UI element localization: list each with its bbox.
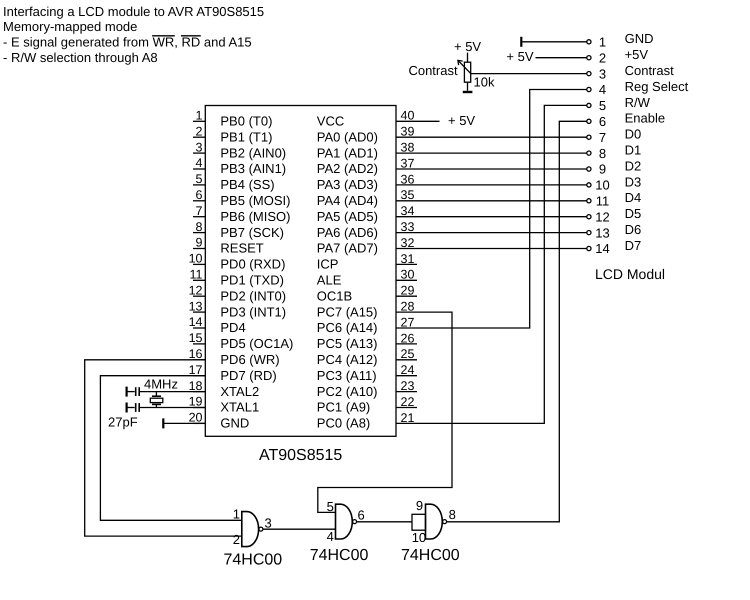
svg-text:74HC00: 74HC00 — [310, 547, 369, 564]
svg-text:PC2 (A10): PC2 (A10) — [317, 384, 378, 399]
U2A pin number 1 — [233, 507, 240, 522]
wire Enable net: NAND U2C output pin 8 up to LCD Enable — [446, 121, 587, 522]
U2A pin number 2 — [233, 532, 240, 547]
svg-text:6: 6 — [358, 508, 365, 523]
svg-text:11: 11 — [596, 194, 610, 209]
svg-text:R/W: R/W — [625, 95, 651, 110]
svg-text:6: 6 — [196, 188, 203, 202]
ground bar at potentiometer — [463, 91, 473, 93]
svg-text:PD6 (WR): PD6 (WR) — [220, 352, 279, 367]
svg-text:27: 27 — [401, 315, 415, 329]
U1 pin 37 (PA2 (AD2)) stub + number + label — [317, 156, 417, 176]
U1 pin 26 (PC5 (A13)) stub + number + label — [317, 331, 417, 351]
svg-text:12: 12 — [595, 209, 609, 224]
svg-text:17: 17 — [189, 363, 203, 377]
svg-text:9: 9 — [196, 236, 203, 250]
svg-text:D1: D1 — [625, 143, 642, 158]
svg-text:PA5 (AD5): PA5 (AD5) — [317, 209, 378, 224]
svg-text:PB2 (AIN0): PB2 (AIN0) — [220, 145, 286, 160]
svg-text:74HC00: 74HC00 — [224, 552, 283, 569]
svg-text:2: 2 — [196, 124, 203, 138]
svg-text:PA1 (AD1): PA1 (AD1) — [317, 145, 378, 160]
svg-text:10: 10 — [595, 178, 609, 193]
svg-text:- E signal generated from WR,: - E signal generated from WR, RD and A15 — [3, 35, 252, 50]
svg-text:8: 8 — [449, 507, 456, 522]
svg-text:13: 13 — [189, 299, 203, 313]
U2B pin number 5 — [327, 499, 334, 514]
svg-text:Reg Select: Reg Select — [625, 79, 689, 94]
wire RD net: pin 17 PD7 down to NAND U2A input pin 1 — [100, 376, 241, 521]
U1 pin 19 (XTAL1) stub + number + label — [189, 395, 260, 415]
svg-text:10: 10 — [189, 252, 203, 266]
svg-text:Interfacing a LCD module to AV: Interfacing a LCD module to AVR AT90S851… — [3, 4, 264, 19]
svg-text:PD4: PD4 — [220, 320, 245, 335]
wire U2B output pin 6 to U2C tied inputs — [357, 521, 412, 523]
LCD connector pin 8 (D1) circle + number + label — [587, 143, 641, 161]
svg-text:PD2 (INT0): PD2 (INT0) — [220, 288, 286, 303]
wire +5V to potentiometer R1 — [467, 53, 469, 63]
svg-text:4MHz: 4MHz — [144, 377, 178, 392]
U2B part label 74HC00 — [310, 547, 369, 564]
svg-text:D3: D3 — [625, 174, 642, 189]
svg-text:25: 25 — [401, 347, 415, 361]
U1 pin 27 (PC6 (A14)) stub + number + label — [317, 315, 417, 335]
capacitor C1 27pF — [127, 387, 140, 396]
svg-text:3: 3 — [265, 515, 272, 530]
svg-text:PB4 (SS): PB4 (SS) — [220, 177, 274, 192]
title text block — [3, 4, 264, 65]
svg-text:36: 36 — [401, 172, 415, 186]
svg-text:PC4 (A12): PC4 (A12) — [317, 352, 378, 367]
wire PA4/AD4 pin 35 to LCD D4 — [417, 200, 587, 202]
svg-text:38: 38 — [401, 141, 415, 155]
U1 pin 6 (PB5 (MOSI)) stub + number + label — [193, 188, 290, 208]
svg-text:13: 13 — [595, 225, 609, 240]
svg-text:9: 9 — [599, 162, 606, 177]
LCD connector pin 7 (D0) circle + number + label — [587, 127, 641, 145]
svg-text:AT90S8515: AT90S8515 — [259, 447, 342, 464]
svg-text:74HC00: 74HC00 — [401, 547, 460, 564]
svg-text:26: 26 — [401, 331, 415, 345]
ground bar at C1 — [125, 387, 127, 397]
svg-text:+ 5V: + 5V — [454, 39, 481, 54]
value label 27pF — [108, 415, 138, 430]
U1 pin 35 (PA4 (AD4)) stub + number + label — [317, 188, 417, 208]
ground bar at C2 — [125, 403, 127, 413]
U1 pin 39 (PA0 (AD0)) stub + number + label — [317, 125, 417, 145]
label LCD Modul — [595, 266, 665, 282]
svg-text:1: 1 — [196, 109, 203, 123]
svg-text:21: 21 — [401, 411, 415, 425]
U2C pin number 9 — [416, 498, 423, 513]
LCD connector pin 5 (R/W) circle + number + label — [587, 95, 651, 113]
svg-text:PD1 (TXD): PD1 (TXD) — [220, 273, 284, 288]
svg-text:RESET: RESET — [220, 241, 263, 256]
svg-text:D7: D7 — [625, 238, 642, 253]
svg-text:PC1 (A9): PC1 (A9) — [317, 400, 370, 415]
svg-text:Enable: Enable — [625, 111, 665, 126]
svg-text:33: 33 — [401, 220, 415, 234]
svg-text:30: 30 — [401, 268, 415, 282]
U1 pin 31 (ICP) stub + number + label — [317, 252, 417, 272]
U2B pin number 6 — [358, 508, 365, 523]
U1 pin 7 (PB6 (MISO)) stub + number + label — [193, 204, 290, 224]
U1 pin 14 (PD4) stub + number + label — [189, 315, 246, 335]
svg-text:PA6 (AD6): PA6 (AD6) — [317, 225, 378, 240]
svg-text:PB6 (MISO): PB6 (MISO) — [220, 209, 290, 224]
op: NAND gate U2A 74HC00 (pins 1,2,3) — [242, 512, 263, 547]
svg-text:27pF: 27pF — [108, 415, 138, 430]
svg-text:PA3 (AD3): PA3 (AD3) — [317, 177, 378, 192]
svg-text:32: 32 — [401, 236, 415, 250]
U1 pin 9 (RESET) stub + number + label — [193, 236, 264, 256]
ground bar at LCD pin 1 — [520, 37, 522, 47]
svg-text:14: 14 — [189, 315, 203, 329]
U1 pin 24 (PC3 (A11)) stub + number + label — [317, 363, 417, 383]
svg-text:PD5 (OC1A): PD5 (OC1A) — [220, 336, 293, 351]
svg-text:40: 40 — [401, 109, 415, 123]
LCD connector pin 2 (+5V) circle + number + label — [587, 47, 649, 65]
svg-text:22: 22 — [401, 395, 415, 409]
svg-text:11: 11 — [190, 268, 203, 282]
U1 pin 16 (PD6 (WR)) stub + number + label — [189, 347, 280, 367]
wire A15 net: pin 28 PC7 down to NAND U2B input pin 5 — [318, 312, 452, 512]
U1 pin 25 (PC4 (A12)) stub + number + label — [317, 347, 417, 367]
crystal X1 4MHz — [150, 392, 163, 408]
svg-text:PC6 (A14): PC6 (A14) — [317, 320, 378, 335]
U1 pin 2 (PB1 (T1)) stub + number + label — [193, 124, 272, 144]
svg-text:7: 7 — [599, 130, 606, 145]
svg-text:D5: D5 — [625, 206, 642, 221]
svg-text:+ 5V: + 5V — [506, 49, 533, 64]
svg-text:PA0 (AD0): PA0 (AD0) — [317, 129, 378, 144]
U1 pin 32 (PA7 (AD7)) stub + number + label — [317, 236, 417, 256]
svg-text:XTAL1: XTAL1 — [220, 400, 259, 415]
svg-text:39: 39 — [401, 125, 415, 139]
U1 pin 11 (PD1 (TXD)) stub + number + label — [190, 268, 284, 288]
svg-text:15: 15 — [189, 331, 203, 345]
svg-text:28: 28 — [401, 300, 415, 314]
potentiometer R1 10k body — [464, 62, 470, 82]
svg-text:14: 14 — [595, 241, 609, 256]
LCD connector pin 4 (Reg Select) circle + number + label — [587, 79, 689, 97]
wire PA7/AD7 pin 32 to LCD D7 — [417, 248, 587, 250]
U2A pin number 3 — [265, 515, 272, 530]
svg-text:8: 8 — [196, 220, 203, 234]
U1 pin 10 (PD0 (RXD)) stub + number + label — [189, 252, 286, 272]
svg-text:PD3 (INT1): PD3 (INT1) — [220, 304, 286, 319]
U1 pin 22 (PC1 (A9)) stub + number + label — [317, 395, 417, 415]
U2B pin number 4 — [327, 529, 334, 544]
value label 4MHz — [144, 377, 178, 392]
wire +5V to LCD pin 2 — [536, 57, 587, 59]
LCD connector pin 14 (D7) circle + number + label — [587, 238, 641, 256]
wire PA0/AD0 pin 39 to LCD D0 — [417, 136, 587, 138]
U1 pin 28 (PC7 (A15)) stub + number + label — [317, 300, 417, 320]
svg-text:+5V: +5V — [625, 47, 649, 62]
LCD connector pin 13 (D6) circle + number + label — [587, 222, 641, 240]
svg-text:XTAL2: XTAL2 — [220, 384, 259, 399]
svg-text:GND: GND — [220, 416, 249, 431]
svg-text:PD7 (RD): PD7 (RD) — [220, 368, 276, 383]
wire PA6/AD6 pin 33 to LCD D6 — [417, 232, 587, 234]
wire potentiometer wiper to LCD Contrast — [471, 73, 587, 75]
svg-text:LCD Modul: LCD Modul — [595, 266, 665, 282]
svg-text:2: 2 — [599, 50, 606, 65]
svg-text:19: 19 — [189, 395, 203, 409]
wire PA2/AD2 pin 37 to LCD D2 — [417, 168, 587, 170]
svg-text:PA4 (AD4): PA4 (AD4) — [317, 193, 378, 208]
op: microcontroller U1 AT90S8515 body — [205, 106, 396, 437]
U1 pin 23 (PC2 (A10)) stub + number + label — [317, 379, 417, 399]
svg-text:29: 29 — [401, 284, 415, 298]
U2C pin number 8 — [449, 507, 456, 522]
svg-text:5: 5 — [599, 98, 606, 113]
wire XTAL2 pin 18 to capacitor C1 — [139, 391, 205, 393]
U1 pin 34 (PA5 (AD5)) stub + number + label — [317, 204, 417, 224]
wire PA3/AD3 pin 36 to LCD D3 — [417, 184, 587, 186]
U2A part label 74HC00 — [224, 552, 283, 569]
svg-text:12: 12 — [189, 283, 203, 297]
svg-text:PC7 (A15): PC7 (A15) — [317, 304, 378, 319]
svg-text:PC0 (A8): PC0 (A8) — [317, 416, 370, 431]
wire A8 net: pin 21 PC0 up to LCD R/W — [417, 105, 587, 423]
svg-text:10: 10 — [412, 530, 426, 545]
LCD connector pin 11 (D4) circle + number + label — [587, 190, 641, 208]
svg-text:10k: 10k — [474, 75, 495, 90]
LCD connector pin 12 (D5) circle + number + label — [587, 206, 641, 224]
svg-text:3: 3 — [599, 66, 606, 81]
wire U2A output pin 3 to U2B input pin 4 — [263, 528, 336, 530]
U1 pin 40 (VCC) stub + number + label — [317, 109, 417, 129]
wire XTAL1 pin 19 to capacitor C2 — [139, 407, 205, 409]
U1 pin 12 (PD2 (INT0)) stub + number + label — [189, 283, 287, 303]
potentiometer R1 wiper arrow — [458, 60, 471, 73]
svg-text:PB3 (AIN1): PB3 (AIN1) — [220, 161, 286, 176]
ground bar at pin 20 — [162, 418, 164, 428]
svg-text:D4: D4 — [625, 190, 642, 205]
op: NAND gate U2B 74HC00 (pins 4,5,6) — [336, 504, 357, 539]
svg-text:PC5 (A13): PC5 (A13) — [317, 336, 378, 351]
wire GND pin 20 to ground bar — [164, 422, 205, 424]
svg-text:4: 4 — [196, 156, 203, 170]
svg-text:20: 20 — [189, 411, 203, 425]
U1 pin 30 (ALE) stub + number + label — [317, 268, 417, 288]
overline over WR — [152, 35, 175, 37]
svg-text:Contrast: Contrast — [625, 63, 675, 78]
svg-text:35: 35 — [401, 188, 415, 202]
svg-text:- R/W selection through A8: - R/W selection through A8 — [3, 50, 158, 65]
svg-text:6: 6 — [599, 114, 606, 129]
svg-text:Memory-mapped mode: Memory-mapped mode — [3, 19, 137, 34]
svg-text:8: 8 — [599, 146, 606, 161]
LCD connector pin 1 (GND) circle + number + label — [587, 31, 654, 49]
svg-text:PB1 (T1): PB1 (T1) — [220, 129, 272, 144]
U2C part label 74HC00 — [401, 547, 460, 564]
power label +5V (LCD pin 2) — [506, 49, 533, 64]
label Contrast — [408, 63, 458, 78]
wire ground bar to LCD GND pin 1 — [522, 41, 587, 43]
svg-text:PD0 (RXD): PD0 (RXD) — [220, 257, 285, 272]
svg-text:OC1B: OC1B — [317, 288, 352, 303]
wire PA1/AD1 pin 38 to LCD D1 — [417, 152, 587, 154]
U1 part label AT90S8515 — [259, 447, 342, 464]
U1 pin 17 (PD7 (RD)) stub + number + label — [189, 363, 277, 383]
U1 pin 36 (PA3 (AD3)) stub + number + label — [317, 172, 417, 192]
svg-text:D6: D6 — [625, 222, 642, 237]
svg-text:VCC: VCC — [317, 114, 344, 129]
U1 pin 13 (PD3 (INT1)) stub + number + label — [189, 299, 287, 319]
svg-text:23: 23 — [401, 379, 415, 393]
power label +5V (potentiometer top) — [454, 39, 481, 54]
svg-text:34: 34 — [401, 204, 415, 218]
U1 pin 5 (PB4 (SS)) stub + number + label — [193, 172, 275, 192]
svg-text:PA2 (AD2): PA2 (AD2) — [317, 161, 378, 176]
U1 pin 21 (PC0 (A8)) stub + number + label — [317, 411, 417, 431]
svg-text:1: 1 — [233, 507, 240, 522]
LCD connector pin 3 (Contrast) circle + number + label — [587, 63, 674, 81]
svg-text:PA7 (AD7): PA7 (AD7) — [317, 241, 378, 256]
svg-text:GND: GND — [625, 31, 654, 46]
svg-text:D0: D0 — [625, 127, 642, 142]
wire VCC pin 40 to +5V — [417, 120, 440, 122]
overline over RD — [181, 35, 201, 37]
svg-text:PB0 (T0): PB0 (T0) — [220, 114, 272, 129]
svg-text:PB7 (SCK): PB7 (SCK) — [220, 225, 284, 240]
U1 pin 20 (GND) stub + number + label — [189, 411, 250, 431]
power label +5V (pin 40) — [448, 113, 475, 128]
svg-text:D2: D2 — [625, 158, 642, 173]
svg-text:Contrast: Contrast — [408, 63, 458, 78]
U2C pin number 10 — [412, 530, 426, 545]
svg-text:5: 5 — [327, 499, 334, 514]
svg-text:24: 24 — [401, 363, 415, 377]
wire PA5/AD5 pin 34 to LCD D5 — [417, 216, 587, 218]
svg-text:3: 3 — [196, 140, 203, 154]
LCD connector pin 10 (D3) circle + number + label — [587, 174, 641, 192]
wire WR net: pin 16 PD6 down to NAND U2A input pin 2 — [85, 360, 242, 536]
LCD connector pin 6 (Enable) circle + number + label — [587, 111, 665, 129]
svg-text:16: 16 — [189, 347, 203, 361]
svg-text:ALE: ALE — [317, 273, 342, 288]
U1 pin 4 (PB3 (AIN1)) stub + number + label — [193, 156, 286, 176]
U2C input tie box (pins 9+10) — [412, 514, 426, 530]
LCD connector pin 9 (D2) circle + number + label — [587, 158, 641, 176]
svg-text:PC3 (A11): PC3 (A11) — [317, 368, 377, 383]
U1 pin 33 (PA6 (AD6)) stub + number + label — [317, 220, 417, 240]
op: NAND gate U2C 74HC00 (pins 9,10,8) wired as inverter — [426, 504, 447, 539]
U1 pin 8 (PB7 (SCK)) stub + number + label — [193, 220, 284, 240]
svg-text:4: 4 — [327, 529, 334, 544]
svg-text:+ 5V: + 5V — [448, 113, 475, 128]
U1 pin 3 (PB2 (AIN0)) stub + number + label — [193, 140, 286, 160]
U1 pin 1 (PB0 (T0)) stub + number + label — [193, 109, 272, 129]
svg-text:31: 31 — [401, 252, 415, 266]
svg-text:1: 1 — [599, 35, 606, 50]
svg-text:PB5 (MOSI): PB5 (MOSI) — [220, 193, 290, 208]
wire A14 net: pin 27 PC6 up to LCD Reg Select — [417, 90, 587, 329]
U1 pin 29 (OC1B) stub + number + label — [317, 284, 417, 304]
svg-text:7: 7 — [196, 204, 203, 218]
svg-text:ICP: ICP — [317, 257, 339, 272]
wire potentiometer bottom to ground — [467, 82, 469, 91]
U1 pin 38 (PA1 (AD1)) stub + number + label — [317, 141, 417, 161]
svg-text:4: 4 — [599, 82, 606, 97]
U1 pin 15 (PD5 (OC1A)) stub + number + label — [189, 331, 294, 351]
svg-text:5: 5 — [196, 172, 203, 186]
value label 10k — [474, 75, 495, 90]
svg-text:18: 18 — [189, 379, 203, 393]
svg-text:37: 37 — [401, 156, 415, 170]
capacitor C2 27pF — [127, 403, 140, 412]
svg-text:9: 9 — [416, 498, 423, 513]
svg-text:2: 2 — [233, 532, 240, 547]
U1 pin 18 (XTAL2) stub + number + label — [189, 379, 260, 399]
